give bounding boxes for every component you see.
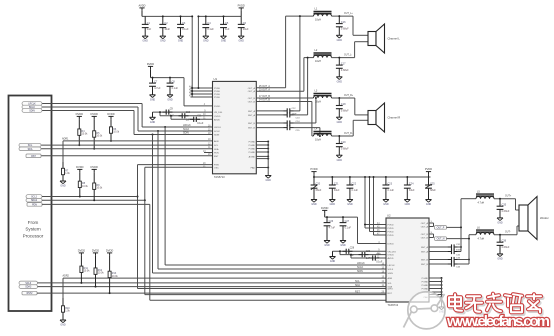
op-amp U1 amplifier IC	[213, 81, 257, 173]
capacitor C24	[406, 177, 408, 185]
capacitor C1	[144, 16, 146, 24]
svg-text:Woofer: Woofer	[540, 216, 549, 220]
svg-text:DVDD: DVDD	[91, 165, 98, 169]
svg-text:0.1uF: 0.1uF	[352, 189, 359, 192]
inductor L4	[314, 130, 332, 132]
svg-text:OVDD: OVDD	[214, 116, 221, 118]
svg-text:C31: C31	[456, 244, 461, 246]
wire OUT_B2 to L4	[256, 101, 312, 103]
svg-text:PGND: PGND	[422, 278, 429, 280]
svg-text:C2: C2	[164, 22, 168, 25]
wire U1 PDN stub	[204, 152, 213, 154]
ground	[439, 306, 445, 308]
svg-text:BST_A: BST_A	[248, 114, 255, 117]
svg-text:PVDD: PVDD	[388, 228, 394, 230]
svg-text:GND: GND	[150, 98, 156, 101]
svg-text:PGND: PGND	[249, 152, 256, 154]
svg-text:OUT_L+: OUT_L+	[344, 13, 353, 15]
svg-text:GND: GND	[337, 121, 343, 124]
svg-text:SCLK: SCLK	[388, 269, 394, 271]
svg-text:DVDD: DVDD	[321, 206, 328, 210]
bootstrap capacitor C13	[256, 114, 283, 116]
top-left decoupling bank AVDD: rail	[142, 15, 192, 17]
wire OUT_A2 to L2	[256, 90, 304, 92]
watermark logo circle	[404, 292, 446, 329]
svg-text:DVDD: DVDD	[214, 106, 221, 108]
svg-text:OUT_A: OUT_A	[248, 87, 256, 90]
svg-text:10.0k: 10.0k	[82, 133, 89, 136]
svg-text:PGND: PGND	[249, 142, 256, 144]
wire RST2 net	[37, 292, 386, 294]
svg-text:10.0k: 10.0k	[113, 130, 120, 133]
wire SCLK net	[42, 106, 138, 108]
svg-text:4.7uH: 4.7uH	[478, 201, 485, 204]
svg-text:0.68uF: 0.68uF	[341, 147, 349, 150]
capacitor C5	[223, 16, 225, 24]
svg-text:OUT_L-: OUT_L-	[344, 55, 352, 57]
svg-text:OVDD: OVDD	[388, 255, 395, 257]
resistor R7 pulldown	[62, 141, 64, 164]
svg-text:L3: L3	[315, 90, 318, 93]
svg-text:25 OUT_A: 25 OUT_A	[259, 85, 270, 88]
wire	[159, 112, 161, 116]
svg-text:4.7uF: 4.7uF	[154, 87, 161, 90]
ferrite tag OUT_N	[435, 237, 447, 241]
svg-text:10.0k: 10.0k	[112, 275, 119, 278]
bootstrap capacitor C15	[256, 127, 283, 129]
svg-text:GND: GND	[337, 39, 343, 42]
capacitor C27	[342, 217, 344, 223]
svg-text:1uF: 1uF	[147, 28, 152, 31]
wire SCL net	[41, 144, 213, 146]
svg-text:GND: GND	[383, 203, 389, 206]
svg-text:10uF: 10uF	[164, 28, 170, 31]
ground	[60, 319, 66, 321]
From System Processor box	[9, 96, 52, 312]
svg-text:L1: L1	[315, 8, 318, 11]
svg-text:PGND: PGND	[422, 289, 429, 291]
svg-text:AVDD: AVDD	[138, 4, 145, 8]
svg-text:1uF: 1uF	[225, 28, 230, 31]
svg-text:BST_B: BST_B	[248, 128, 255, 130]
svg-text:C5: C5	[225, 22, 229, 25]
svg-text:VR_DIG: VR_DIG	[214, 112, 222, 114]
wire PVDD rail riser to U1 pins	[191, 16, 193, 97]
wire OUT to speaker ChannelL-	[332, 57, 355, 59]
svg-text:4.7uH: 4.7uH	[478, 237, 485, 240]
capacitor C21	[331, 177, 333, 185]
svg-text:10.0k: 10.0k	[96, 134, 103, 137]
svg-text:U1: U1	[214, 77, 218, 81]
svg-text:SDA2: SDA2	[31, 199, 38, 202]
svg-text:0.1uF: 0.1uF	[197, 122, 204, 125]
middle tags group	[26, 195, 42, 199]
svg-text:SDIN: SDIN	[388, 273, 394, 275]
svg-text:L6: L6	[477, 226, 480, 229]
svg-text:GND: GND	[330, 203, 336, 206]
svg-text:ADR1: ADR1	[62, 138, 69, 141]
capacitor C9	[163, 111, 167, 113]
speaker Woofer	[519, 205, 528, 231]
svg-text:GND: GND	[60, 324, 66, 327]
svg-text:C28: C28	[350, 247, 355, 250]
svg-text:68uF: 68uF	[316, 189, 322, 192]
capacitor C28	[343, 250, 347, 252]
svg-text:RST2: RST2	[27, 293, 34, 295]
svg-text:AVDD: AVDD	[214, 118, 220, 121]
capacitor C7	[152, 78, 154, 84]
tag RST	[26, 154, 41, 158]
svg-text:OUT_B: OUT_B	[248, 98, 256, 100]
svg-text:GPIO: GPIO	[388, 289, 394, 291]
svg-text:10.0k: 10.0k	[84, 270, 91, 273]
wire U1 OSC to U2 shared net	[145, 166, 213, 168]
svg-text:10uH: 10uH	[315, 19, 321, 22]
svg-text:LRCLK: LRCLK	[388, 265, 396, 267]
svg-text:C4: C4	[207, 22, 211, 25]
svg-text:OUT_A: OUT_A	[421, 222, 429, 225]
wire DVDD2 rail	[325, 216, 358, 218]
ground	[330, 256, 336, 258]
svg-text:BST_B: BST_B	[421, 260, 428, 262]
tag BCLK	[22, 105, 42, 109]
svg-text:GND: GND	[340, 244, 346, 247]
svg-text:GND: GND	[178, 40, 184, 43]
wire SCL2 net	[38, 282, 387, 284]
inductor L3	[314, 92, 332, 94]
svg-text:0.1uF: 0.1uF	[388, 189, 395, 192]
capacitor C25 bulk	[428, 177, 430, 185]
svg-text:PDN: PDN	[32, 204, 37, 206]
svg-text:GND: GND	[497, 258, 503, 261]
capacitor C30	[369, 257, 373, 259]
svg-text:ADR: ADR	[388, 277, 393, 280]
tag LRCLK	[22, 102, 42, 106]
svg-text:GND: GND	[330, 260, 336, 263]
svg-text:C6: C6	[243, 22, 247, 25]
wire SDIN net	[42, 110, 134, 112]
wire to woofer +	[494, 198, 516, 200]
svg-text:C34: C34	[456, 267, 461, 269]
inductor L5	[476, 193, 494, 195]
svg-text:C10: C10	[186, 111, 191, 114]
svg-text:0.68uF: 0.68uF	[341, 109, 349, 112]
wire OUT_B to L3	[256, 97, 313, 99]
svg-text:C23: C23	[388, 182, 393, 185]
svg-text:DVDD: DVDD	[76, 165, 83, 169]
svg-text:14 OUT_B: 14 OUT_B	[259, 100, 270, 102]
svg-text:BST_A: BST_A	[421, 251, 428, 254]
wire U1 PGND bus	[256, 141, 268, 143]
svg-text:GND: GND	[405, 203, 411, 206]
svg-text:0.68uF: 0.68uF	[341, 27, 349, 30]
svg-text:RST: RST	[388, 293, 393, 295]
svg-text:L2: L2	[315, 49, 318, 52]
svg-text:C12: C12	[292, 108, 297, 110]
svg-text:DVDD: DVDD	[92, 249, 99, 253]
capacitor C17	[338, 57, 340, 59]
ground	[60, 180, 66, 182]
svg-text:U2: U2	[387, 214, 391, 218]
watermark text 电子发烧友	[449, 294, 542, 314]
svg-text:OUT_A: OUT_A	[248, 90, 256, 93]
node LRCLK branch to U2	[164, 126, 166, 128]
svg-text:Processor: Processor	[23, 233, 44, 238]
svg-text:C13: C13	[296, 117, 301, 119]
svg-text:OUT_A: OUT_A	[421, 226, 429, 229]
svg-text:OUT_R+: OUT_R+	[344, 95, 354, 97]
bootstrap capacitor C12	[256, 110, 283, 112]
wire riser to L6	[468, 235, 470, 239]
speaker Channel R	[368, 111, 376, 125]
svg-text:10uH: 10uH	[315, 139, 321, 142]
ground	[150, 116, 156, 118]
capacitor C36	[499, 234, 501, 236]
svg-text:C3: C3	[182, 22, 186, 25]
svg-text:GND: GND	[311, 203, 317, 206]
svg-text:DVDD: DVDD	[388, 244, 395, 246]
svg-text:C15: C15	[296, 130, 301, 132]
svg-text:OUT_R-: OUT_R-	[344, 133, 353, 135]
svg-text:DVDD: DVDD	[76, 112, 83, 116]
svg-text:PVDD: PVDD	[388, 235, 394, 237]
svg-text:SCLK: SCLK	[214, 131, 220, 133]
capacitor C18	[338, 97, 340, 99]
VR_DIG RC network for U2	[333, 250, 387, 252]
wire	[170, 116, 172, 120]
svg-text:C19: C19	[341, 141, 346, 144]
svg-text:DVDD: DVDD	[147, 62, 154, 66]
svg-text:OUT-: OUT-	[505, 232, 511, 234]
svg-text:0.1uF: 0.1uF	[172, 87, 179, 90]
wire	[339, 251, 341, 254]
capacitor C6	[240, 16, 242, 24]
svg-text:C26: C26	[329, 220, 334, 223]
svg-text:BST_B: BST_B	[421, 264, 428, 266]
svg-text:SDIN: SDIN	[357, 270, 363, 273]
wire RST net	[41, 155, 213, 157]
svg-text:PGND: PGND	[249, 145, 256, 147]
speaker Channel L	[368, 32, 376, 46]
svg-text:PVDD: PVDD	[388, 232, 394, 234]
wire OUT to speaker ChannelR+	[332, 97, 355, 99]
wire OUT to speaker ChannelL+	[332, 15, 354, 17]
svg-text:VR_DIG: VR_DIG	[388, 251, 396, 253]
svg-text:LRCLK: LRCLK	[357, 262, 365, 265]
svg-text:AVDD: AVDD	[388, 257, 394, 260]
svg-text:TAS5713: TAS5713	[214, 175, 225, 179]
svg-text:10.0k: 10.0k	[96, 187, 103, 190]
svg-text:0.1uF: 0.1uF	[345, 226, 352, 229]
svg-text:GND: GND	[203, 40, 209, 43]
capacitor C11	[190, 118, 194, 120]
wire U2 OUT_B pair	[429, 233, 434, 235]
wire I2S bus to U2	[165, 264, 386, 266]
svg-text:RST: RST	[31, 156, 36, 158]
svg-text:4.7uF: 4.7uF	[329, 226, 336, 229]
capacitor C26	[326, 217, 328, 223]
svg-text:AGND: AGND	[249, 155, 256, 158]
svg-text:10.0k: 10.0k	[98, 272, 105, 275]
svg-text:PGND: PGND	[422, 285, 429, 287]
svg-text:0.68uF: 0.68uF	[502, 246, 510, 249]
svg-text:BST_A: BST_A	[248, 110, 255, 113]
svg-text:ADR: ADR	[214, 140, 219, 143]
svg-text:C17: C17	[341, 63, 346, 66]
svg-text:GND: GND	[143, 40, 149, 43]
wire U2 OUT_A pair	[429, 222, 434, 224]
svg-text:C35: C35	[502, 204, 507, 207]
svg-text:OUT+: OUT+	[505, 196, 512, 198]
svg-text:1.0k: 1.0k	[65, 172, 70, 175]
wire middle band line 3 PDN to U2	[42, 203, 150, 205]
svg-text:C36: C36	[502, 240, 507, 243]
svg-text:C20: C20	[316, 182, 321, 185]
wire to woofer -	[494, 234, 517, 236]
svg-text:GND: GND	[167, 98, 173, 101]
wire OUT to speaker ChannelR-	[332, 135, 354, 137]
svg-text:Channel R: Channel R	[388, 116, 401, 120]
svg-text:From: From	[28, 220, 39, 225]
tag SDA	[19, 147, 41, 151]
svg-text:PDN: PDN	[214, 153, 219, 155]
capacitor C35	[499, 198, 501, 200]
U2 PVDD decoupling rail	[314, 176, 431, 178]
svg-text:0.1uF: 0.1uF	[182, 28, 189, 31]
capacitor C19	[338, 135, 340, 137]
ferrite tag OUT_P	[435, 226, 447, 230]
svg-text:GND: GND	[160, 40, 166, 43]
svg-text:System: System	[25, 227, 40, 232]
svg-text:GND: GND	[347, 203, 353, 206]
svg-text:PVDD: PVDD	[214, 97, 220, 99]
svg-text:GND: GND	[497, 222, 503, 225]
svg-text:PVDD: PVDD	[238, 4, 245, 8]
svg-text:C11: C11	[197, 115, 202, 118]
VR_DIG RC network for U1	[153, 111, 213, 113]
svg-text:RST: RST	[214, 156, 219, 158]
wire	[350, 255, 352, 258]
svg-text:OUT_B: OUT_B	[421, 238, 429, 240]
wire U2 PGND bus	[429, 277, 442, 279]
bootstrap capacitor C34	[429, 263, 448, 265]
svg-text:10uH: 10uH	[315, 60, 321, 63]
svg-text:SDIN: SDIN	[214, 135, 220, 137]
capacitor C4	[205, 16, 207, 24]
svg-text:SDA: SDA	[214, 148, 219, 151]
wire DVDD feed to U1	[183, 78, 185, 106]
svg-text:OUT_N: OUT_N	[437, 239, 445, 241]
C20 electrolytic slash	[311, 185, 317, 190]
svg-text:DVDD: DVDD	[91, 112, 98, 116]
capacitor C2	[162, 16, 164, 24]
svg-text:GND: GND	[221, 40, 227, 43]
resistor R10 pulldown	[62, 278, 64, 300]
svg-text:PVDD: PVDD	[214, 88, 220, 90]
capacitor C22	[349, 177, 351, 185]
wire middle band line 2 to shared net	[42, 199, 145, 201]
svg-text:BST_A: BST_A	[421, 246, 428, 249]
svg-text:0.68uF: 0.68uF	[341, 69, 349, 72]
svg-text:OUT_B: OUT_B	[248, 102, 256, 104]
svg-text:68uF: 68uF	[430, 189, 436, 192]
svg-text:PVDD: PVDD	[388, 225, 394, 227]
svg-text:RST: RST	[355, 290, 360, 293]
op-amp U2 amplifier IC	[386, 218, 429, 302]
svg-text:SCL: SCL	[355, 280, 360, 283]
svg-text:GND: GND	[60, 185, 66, 188]
svg-text:PGND: PGND	[249, 149, 256, 151]
svg-text:GND: GND	[324, 244, 330, 247]
tag SCL	[19, 143, 41, 147]
svg-text:ADR2: ADR2	[63, 275, 70, 278]
svg-text:BST_B: BST_B	[248, 123, 255, 125]
svg-text:23 OUT_A: 23 OUT_A	[259, 88, 270, 91]
svg-text:L5: L5	[477, 190, 480, 193]
wire U1 PVDD pin stubs	[191, 87, 213, 89]
svg-text:0.68uF: 0.68uF	[502, 210, 510, 213]
svg-text:SDIN: SDIN	[183, 132, 189, 135]
svg-text:C8: C8	[172, 81, 176, 84]
bootstrap capacitor C32	[429, 251, 448, 253]
inductor L1	[314, 11, 332, 13]
svg-text:PVDD: PVDD	[310, 167, 317, 171]
svg-text:SDIN: SDIN	[29, 110, 35, 112]
svg-text:33uF: 33uF	[334, 189, 340, 192]
top decoupling bank PVDD: rail	[198, 15, 241, 17]
svg-text:PVDD: PVDD	[214, 94, 220, 96]
wire DVDD2 feed	[357, 217, 359, 243]
svg-text:0.1uF: 0.1uF	[207, 28, 214, 31]
svg-text:OSC: OSC	[214, 167, 219, 169]
capacitor C16	[338, 15, 340, 17]
tag SDIN	[22, 109, 42, 113]
svg-text:C29: C29	[366, 250, 371, 253]
svg-text:SDA3: SDA3	[25, 286, 32, 289]
svg-text:www.elecfans.com: www.elecfans.com	[446, 313, 550, 330]
wire DVDD rail	[151, 77, 185, 79]
svg-text:10.0k: 10.0k	[82, 185, 89, 188]
wire U1 FSW to U2 shared net	[138, 164, 213, 166]
svg-text:DVDD: DVDD	[78, 249, 85, 253]
inductor L6	[476, 229, 494, 231]
bootstrap capacitor C33	[429, 259, 448, 261]
svg-text:C9: C9	[170, 107, 174, 110]
wire SDA2 net	[38, 286, 387, 288]
svg-text:PGND: PGND	[422, 282, 429, 284]
svg-text:0.1uF: 0.1uF	[376, 261, 383, 264]
svg-text:Channel L: Channel L	[388, 37, 401, 41]
svg-text:LRCLK: LRCLK	[214, 127, 222, 129]
wire OUT_A to L1	[256, 87, 285, 89]
svg-text:SDA: SDA	[28, 148, 33, 151]
capacitor C23	[385, 177, 387, 185]
bottom tags group	[19, 281, 38, 285]
capacitor C29	[359, 254, 363, 256]
wire middle band line 1 to shared net	[42, 196, 138, 198]
capacitor C3	[180, 16, 182, 24]
bootstrap capacitor C31	[429, 246, 448, 248]
svg-text:PVDD: PVDD	[425, 167, 432, 171]
svg-text:TAS5713: TAS5713	[388, 303, 399, 307]
capacitor C20	[313, 177, 315, 185]
svg-text:GND: GND	[337, 159, 343, 162]
svg-text:GND: GND	[239, 40, 245, 43]
svg-text:DVDD: DVDD	[107, 112, 114, 116]
inductor L2	[314, 52, 332, 54]
svg-text:GND: GND	[150, 121, 156, 124]
ground	[265, 175, 271, 177]
